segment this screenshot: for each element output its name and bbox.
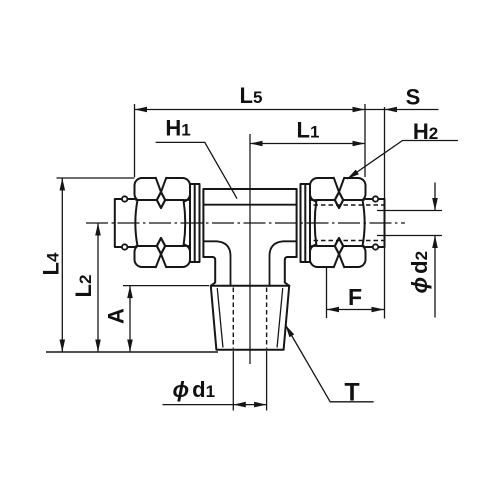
svg-text:S: S	[406, 85, 421, 110]
svg-text:A: A	[104, 308, 129, 324]
svg-text:T: T	[344, 379, 359, 407]
svg-text:F: F	[348, 284, 362, 310]
